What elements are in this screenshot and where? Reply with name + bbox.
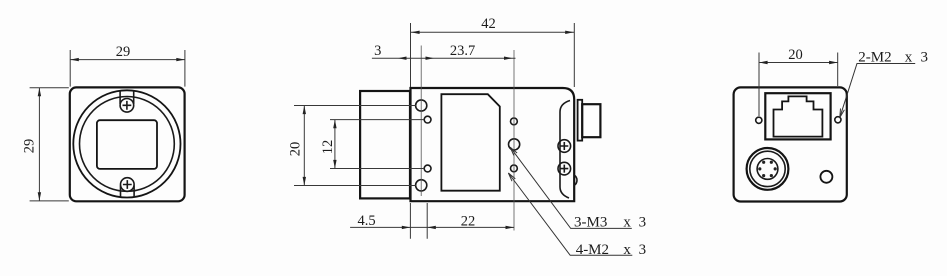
side dim 4.5 and 22 (350, 203, 514, 239)
svg-text:4-M2: 4-M2 (576, 242, 609, 258)
rear view body (734, 87, 847, 201)
rear dim 20 (759, 47, 838, 116)
svg-text:2-M2: 2-M2 (858, 50, 891, 66)
centerline left hole column (420, 46, 422, 197)
side dim 12 vertical (320, 120, 425, 169)
rear LED (820, 171, 832, 183)
svg-text:20: 20 (288, 142, 304, 157)
side connector flange (578, 100, 583, 141)
side hole M2 upper-left (424, 116, 431, 123)
rear RJ45 outline (765, 93, 830, 139)
svg-text:3: 3 (374, 43, 381, 59)
side screw bottom (558, 162, 571, 175)
svg-text:3: 3 (921, 50, 929, 66)
svg-text:23.7: 23.7 (450, 43, 475, 59)
svg-text:3-M3: 3-M3 (574, 215, 607, 231)
front view body (70, 87, 185, 201)
svg-text:x: x (623, 242, 631, 258)
rear screw hole right (835, 117, 841, 123)
side hole M3 top-left (416, 100, 427, 111)
front sensor window (97, 120, 157, 169)
svg-text:3: 3 (639, 215, 647, 231)
side dim 3 and 23.7 (372, 43, 516, 60)
side hole M2 lower-left (424, 165, 431, 172)
svg-text:x: x (623, 215, 631, 231)
rear RJ45 plug profile (774, 96, 823, 136)
front dim 29 vertical (22, 88, 69, 201)
side rear plate contour (560, 101, 570, 199)
front lens flange outer circle (73, 90, 180, 197)
svg-text:42: 42 (481, 16, 496, 32)
front dim 29 horizontal (70, 44, 185, 87)
side hole M2 mid-top (511, 118, 518, 125)
svg-text:x: x (905, 50, 913, 66)
side screw top (558, 140, 571, 153)
front lens flange inner ring (80, 96, 175, 191)
side dim 20 vertical (288, 106, 417, 186)
centerline middle hole column (513, 50, 515, 231)
side lens mount (360, 91, 410, 198)
front bottom screw (121, 178, 135, 198)
side hole M3 bottom-left (416, 180, 427, 191)
svg-text:20: 20 (788, 47, 803, 63)
side hole M3 middle (508, 139, 519, 150)
side body (411, 88, 575, 201)
leader 2-M2 (840, 50, 928, 118)
leader 3-M3 (510, 147, 646, 230)
side panel (441, 94, 499, 191)
rear screw hole left (756, 117, 762, 123)
svg-text:3: 3 (639, 242, 647, 258)
svg-text:22: 22 (461, 213, 476, 229)
svg-text:29: 29 (22, 139, 38, 154)
front top screw (120, 91, 134, 113)
svg-text:12: 12 (320, 140, 336, 155)
side dim 42 (411, 16, 575, 87)
side hole M2 mid-bottom (511, 165, 518, 172)
side connector barrel (582, 104, 600, 137)
side thumb bump (574, 175, 577, 186)
leader 4-M2 (508, 173, 646, 258)
rear power connector (747, 148, 789, 190)
svg-text:4.5: 4.5 (358, 213, 376, 229)
svg-text:29: 29 (116, 44, 131, 60)
